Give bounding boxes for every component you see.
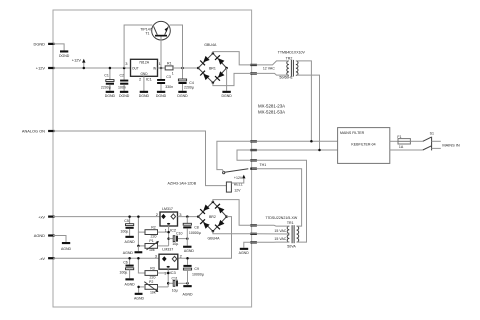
svg-text:15 VAC: 15 VAC bbox=[274, 237, 286, 241]
wire mains L (tick to filter) bbox=[252, 140, 338, 143]
regulator IC2 LM317 bbox=[160, 207, 178, 226]
capacitor C4 2200u bbox=[178, 68, 194, 91]
svg-text:AGND: AGND bbox=[125, 282, 136, 286]
svg-text:+12V: +12V bbox=[234, 176, 243, 180]
svg-text:DGND: DGND bbox=[105, 94, 116, 98]
svg-text:C5: C5 bbox=[124, 219, 129, 223]
port +12V bbox=[36, 66, 55, 71]
svg-text:C11: C11 bbox=[172, 276, 178, 280]
svg-text:C2: C2 bbox=[120, 73, 125, 77]
svg-text:TH1: TH1 bbox=[260, 163, 267, 167]
svg-text:AGND: AGND bbox=[134, 297, 145, 301]
capacitor C10 10u bbox=[169, 232, 189, 246]
ground AGND (C8) bbox=[183, 246, 194, 253]
svg-text:2200µ: 2200µ bbox=[101, 86, 111, 90]
svg-text:BR2: BR2 bbox=[209, 215, 216, 219]
wire relay coil to +12V arrow bbox=[231, 178, 243, 183]
connector MAINS IN bbox=[432, 137, 460, 151]
svg-text:T1: T1 bbox=[145, 31, 149, 35]
ground DGND (BR1) bbox=[221, 91, 232, 98]
svg-text:330n: 330n bbox=[165, 85, 173, 89]
svg-text:+12V: +12V bbox=[36, 66, 46, 71]
fuse F1 1A bbox=[397, 135, 410, 149]
svg-text:1: 1 bbox=[172, 71, 174, 75]
wire 7812 GND pin to ground bbox=[143, 76, 145, 91]
svg-text:10000µ: 10000µ bbox=[189, 231, 201, 235]
svg-text:IC3: IC3 bbox=[170, 270, 177, 275]
svg-text:AGND: AGND bbox=[184, 249, 195, 253]
svg-text:C6: C6 bbox=[123, 260, 128, 264]
wire P2 to ground bbox=[137, 286, 145, 293]
wire +12V rail (port to regulator OUT) bbox=[53, 67, 131, 69]
port tick TH1 b bbox=[250, 168, 257, 170]
text MX-5281-23A / MX-5281-53A bbox=[258, 103, 285, 114]
transformer TR1 bbox=[265, 216, 298, 249]
capacitor C9 10000u bbox=[183, 257, 204, 285]
svg-text:MX-5281-23A: MX-5281-23A bbox=[258, 103, 285, 108]
wire mains N (tick to filter) bbox=[252, 149, 338, 152]
capacitor C1 2200u bbox=[101, 67, 114, 91]
svg-text:DGND: DGND bbox=[59, 54, 70, 58]
svg-text:AGND: AGND bbox=[123, 251, 134, 255]
pin 2 (LM337 IN) bbox=[180, 253, 183, 258]
svg-text:C1: C1 bbox=[104, 73, 109, 77]
wire fuse to switch bbox=[410, 140, 422, 142]
mains filter module bbox=[338, 128, 390, 164]
svg-text:TR1: TR1 bbox=[287, 221, 294, 225]
ground AGND (P2) bbox=[134, 293, 145, 301]
port tick TR1 sec CT bbox=[250, 233, 257, 235]
wire DGND port to ground bbox=[53, 44, 64, 51]
voltage regulator IC1 7812A bbox=[131, 59, 158, 76]
svg-text:10k: 10k bbox=[149, 248, 155, 252]
resistor R2 220 bbox=[145, 226, 158, 239]
transistor T1 TIP147 bbox=[140, 21, 170, 40]
wire filter to switch (N) bbox=[390, 149, 423, 151]
svg-text:50VA: 50VA bbox=[287, 245, 296, 249]
resistor R3 220 bbox=[145, 266, 158, 279]
ground AGND (TR1) bbox=[239, 248, 250, 255]
svg-text:AZ943-1AH-12DB: AZ943-1AH-12DB bbox=[168, 181, 197, 185]
svg-text:GBU4A: GBU4A bbox=[207, 237, 220, 241]
relay contact K1 bbox=[223, 169, 249, 174]
wire R2/P1 branch vertical bbox=[137, 215, 145, 251]
port tick TR1 sec A bbox=[250, 224, 257, 226]
port ANALOG ON bbox=[22, 129, 55, 134]
wire R1 to bridge BR1 + node bbox=[173, 67, 199, 70]
regulator IC3 LM337 bbox=[159, 247, 178, 269]
bridge rectifier BR2 GBU4A bbox=[198, 201, 228, 241]
port +xV bbox=[38, 214, 54, 219]
svg-text:R1: R1 bbox=[167, 62, 172, 66]
svg-text:BR1: BR1 bbox=[209, 67, 216, 71]
svg-text:100n: 100n bbox=[118, 86, 126, 90]
wire TR2 primary top lead down to mains L bbox=[296, 61, 312, 141]
pin 1 (LM317 ADJ) + IC2 label bbox=[165, 227, 177, 232]
svg-text:IC1: IC1 bbox=[146, 77, 153, 82]
svg-text:F1: F1 bbox=[397, 135, 401, 139]
svg-text:2200µ: 2200µ bbox=[184, 86, 194, 90]
capacitor C6 100u bbox=[119, 257, 133, 278]
svg-text:C8: C8 bbox=[194, 225, 199, 229]
svg-text:DGND: DGND bbox=[177, 94, 188, 98]
svg-text:DGND: DGND bbox=[156, 94, 167, 98]
ground DGND (C3) bbox=[156, 91, 167, 98]
svg-text:AGND: AGND bbox=[125, 240, 136, 244]
svg-text:OUT: OUT bbox=[132, 66, 139, 70]
pin 3 (7812 OUT) bbox=[125, 61, 128, 66]
switch S1 pole 1 bbox=[423, 137, 431, 141]
svg-text:AGND: AGND bbox=[239, 251, 250, 255]
port DGND bbox=[34, 42, 55, 47]
svg-text:GND: GND bbox=[140, 72, 148, 76]
pin 2 (LM317 OUT) bbox=[156, 212, 159, 217]
svg-text:10000µ: 10000µ bbox=[192, 273, 204, 277]
svg-text:AGND: AGND bbox=[61, 247, 72, 251]
wire AGND port to ground bbox=[53, 236, 66, 243]
port tick TH1 a bbox=[250, 159, 257, 161]
ground AGND (P1) bbox=[123, 251, 143, 255]
svg-text:ANALOG ON: ANALOG ON bbox=[22, 129, 45, 134]
svg-text:MAINS IN: MAINS IN bbox=[442, 143, 459, 148]
svg-text:LM337: LM337 bbox=[162, 247, 173, 251]
capacitor C3 330n bbox=[157, 68, 173, 91]
potentiometer P1 10k bbox=[145, 239, 159, 252]
ground AGND (C6) bbox=[125, 278, 136, 286]
svg-text:77DSU22N21/5-XW: 77DSU22N21/5-XW bbox=[265, 216, 297, 220]
svg-text:R2: R2 bbox=[151, 226, 156, 230]
wire TR1 primary top to TH1 b bbox=[252, 169, 302, 226]
bridge rectifier BR1 GBU4A bbox=[198, 43, 228, 84]
svg-text:GBU4A: GBU4A bbox=[204, 43, 217, 47]
svg-text:C10: C10 bbox=[176, 232, 183, 236]
port tick TR1 sec B bbox=[250, 241, 257, 243]
capacitor C8 10000u bbox=[183, 217, 201, 246]
svg-text:C9: C9 bbox=[194, 267, 199, 271]
wire mains N jumper to TH1 feed bbox=[237, 150, 252, 160]
svg-text:LM317: LM317 bbox=[162, 207, 173, 211]
wire +xV rail (port to LM317 OUT) bbox=[53, 216, 160, 218]
transformer TR2 bbox=[263, 51, 306, 80]
svg-text:C3: C3 bbox=[166, 75, 171, 79]
wire ANALOG ON net to relay coil bbox=[53, 131, 226, 186]
svg-text:10k: 10k bbox=[150, 291, 156, 295]
wire BR2 AC2 to center tick bbox=[213, 231, 252, 234]
node +12V supply arrow (relay) bbox=[234, 175, 246, 180]
board outline box bbox=[53, 10, 252, 307]
wire filter to fuse bbox=[390, 140, 398, 142]
pin 1 (LM337 ADJ) + IC3 label bbox=[164, 270, 176, 275]
wire BR1 AC2 to tick bbox=[213, 73, 252, 85]
wire TR2 secondary bottom lead bbox=[252, 73, 289, 75]
svg-text:P1: P1 bbox=[149, 239, 153, 243]
svg-text:15 VAC: 15 VAC bbox=[274, 229, 286, 233]
ground DGND (C4) bbox=[177, 91, 188, 98]
svg-text:R3: R3 bbox=[150, 266, 155, 270]
wire TR2 secondary top lead bbox=[252, 61, 289, 65]
svg-text:10µ: 10µ bbox=[172, 289, 178, 293]
svg-text:AGND: AGND bbox=[34, 233, 45, 238]
wire BR1 minus to ground bbox=[226, 68, 228, 91]
svg-text:100µ: 100µ bbox=[120, 229, 128, 233]
port -xV bbox=[39, 256, 54, 261]
port tick AC1 top bbox=[250, 64, 257, 66]
pin 2 (7812 GND) + IC1 label bbox=[139, 77, 153, 82]
svg-text:TTMB4D1XX10V: TTMB4D1XX10V bbox=[278, 51, 306, 55]
wire LM337 ADJ network bbox=[158, 269, 170, 287]
capacitor C2 100n bbox=[118, 67, 128, 91]
wire TR1 sec center tap lead bbox=[252, 233, 290, 235]
svg-text:DGND: DGND bbox=[221, 94, 232, 98]
svg-text:AGND: AGND bbox=[182, 292, 193, 296]
ground AGND (near port) bbox=[61, 242, 72, 251]
wire LM317 ADJ network bbox=[158, 226, 170, 246]
svg-text:+12V: +12V bbox=[72, 57, 82, 62]
port tick mains N bbox=[250, 149, 257, 151]
pin 1 (7812 IN) bbox=[159, 61, 162, 66]
relay REL1 AZ943-1AH-12DB coil bbox=[168, 181, 243, 192]
wire TR2 primary bottom lead down to mains N bbox=[296, 75, 320, 150]
svg-text:S1: S1 bbox=[430, 131, 434, 135]
svg-text:DGND: DGND bbox=[119, 94, 130, 98]
ground DGND (IC1) bbox=[139, 91, 150, 98]
svg-text:50/60Hz: 50/60Hz bbox=[279, 76, 292, 80]
svg-text:220: 220 bbox=[151, 234, 157, 238]
svg-text:-xV: -xV bbox=[39, 256, 45, 261]
svg-text:1A: 1A bbox=[399, 145, 404, 149]
ground DGND (C2) bbox=[119, 91, 130, 98]
wire TR1 sec B tick to ground bbox=[244, 242, 252, 248]
svg-text:7812A: 7812A bbox=[139, 61, 150, 65]
wire mains L to relay contact bbox=[217, 141, 252, 171]
wire -xV rail (port to LM337 OUT) bbox=[53, 257, 159, 259]
wire T1 base to regulator IN node bbox=[160, 37, 162, 69]
port tick mains L bbox=[250, 140, 257, 142]
ground DGND (C1) bbox=[105, 91, 116, 98]
ground AGND (C9) bbox=[182, 285, 193, 296]
capacitor C11 10u bbox=[168, 276, 189, 292]
svg-text:12 VAC: 12 VAC bbox=[263, 66, 275, 70]
svg-text:DGND: DGND bbox=[34, 42, 46, 47]
port AGND bbox=[34, 233, 55, 238]
wire TR1 primary bottom to TH1 a bbox=[252, 160, 307, 242]
svg-text:MX-5281-53A: MX-5281-53A bbox=[258, 110, 285, 115]
wire BR2 AC1 loop to tick bbox=[213, 200, 252, 226]
switch S1 pole 2 bbox=[423, 131, 434, 150]
resistor R1 value 1 bbox=[165, 62, 174, 76]
pin 3 (LM317 IN) bbox=[179, 212, 182, 217]
svg-text:MAINS FILTER: MAINS FILTER bbox=[340, 131, 365, 135]
svg-text:DGND: DGND bbox=[139, 94, 150, 98]
wire transistor bypass loop right bbox=[170, 25, 183, 68]
svg-text:KEBFILTER-04: KEBFILTER-04 bbox=[351, 143, 375, 147]
wire TR1 sec A lead bbox=[252, 224, 290, 227]
svg-text:10µ: 10µ bbox=[172, 242, 178, 246]
svg-text:12V: 12V bbox=[234, 189, 241, 193]
wire R3 branch vertical bbox=[137, 257, 145, 273]
wire BR2 minus to -xV rail bbox=[178, 217, 232, 259]
ground AGND (C5) bbox=[125, 236, 136, 244]
svg-text:220: 220 bbox=[150, 275, 156, 279]
wire transistor bypass loop left bbox=[124, 25, 152, 68]
svg-text:100µ: 100µ bbox=[119, 271, 127, 275]
potentiometer P2 10k bbox=[144, 280, 158, 294]
thermal fuse TH1 label bbox=[260, 163, 267, 167]
wire TR1 sec B lead bbox=[252, 241, 290, 243]
svg-text:P2: P2 bbox=[149, 280, 153, 284]
ground DGND (near port) bbox=[59, 50, 70, 58]
pin 3 (LM337 OUT) bbox=[155, 253, 158, 258]
svg-text:+xV: +xV bbox=[38, 214, 45, 219]
capacitor C5 100u bbox=[120, 215, 133, 235]
port tick AC2 top bbox=[250, 72, 257, 74]
wire BR1 AC1 to tick bbox=[213, 52, 252, 65]
node +12V supply arrow bbox=[72, 57, 86, 69]
wire LM317 IN to BR2 bbox=[178, 215, 200, 218]
wire regulator IN segment with junctions bbox=[158, 67, 166, 70]
